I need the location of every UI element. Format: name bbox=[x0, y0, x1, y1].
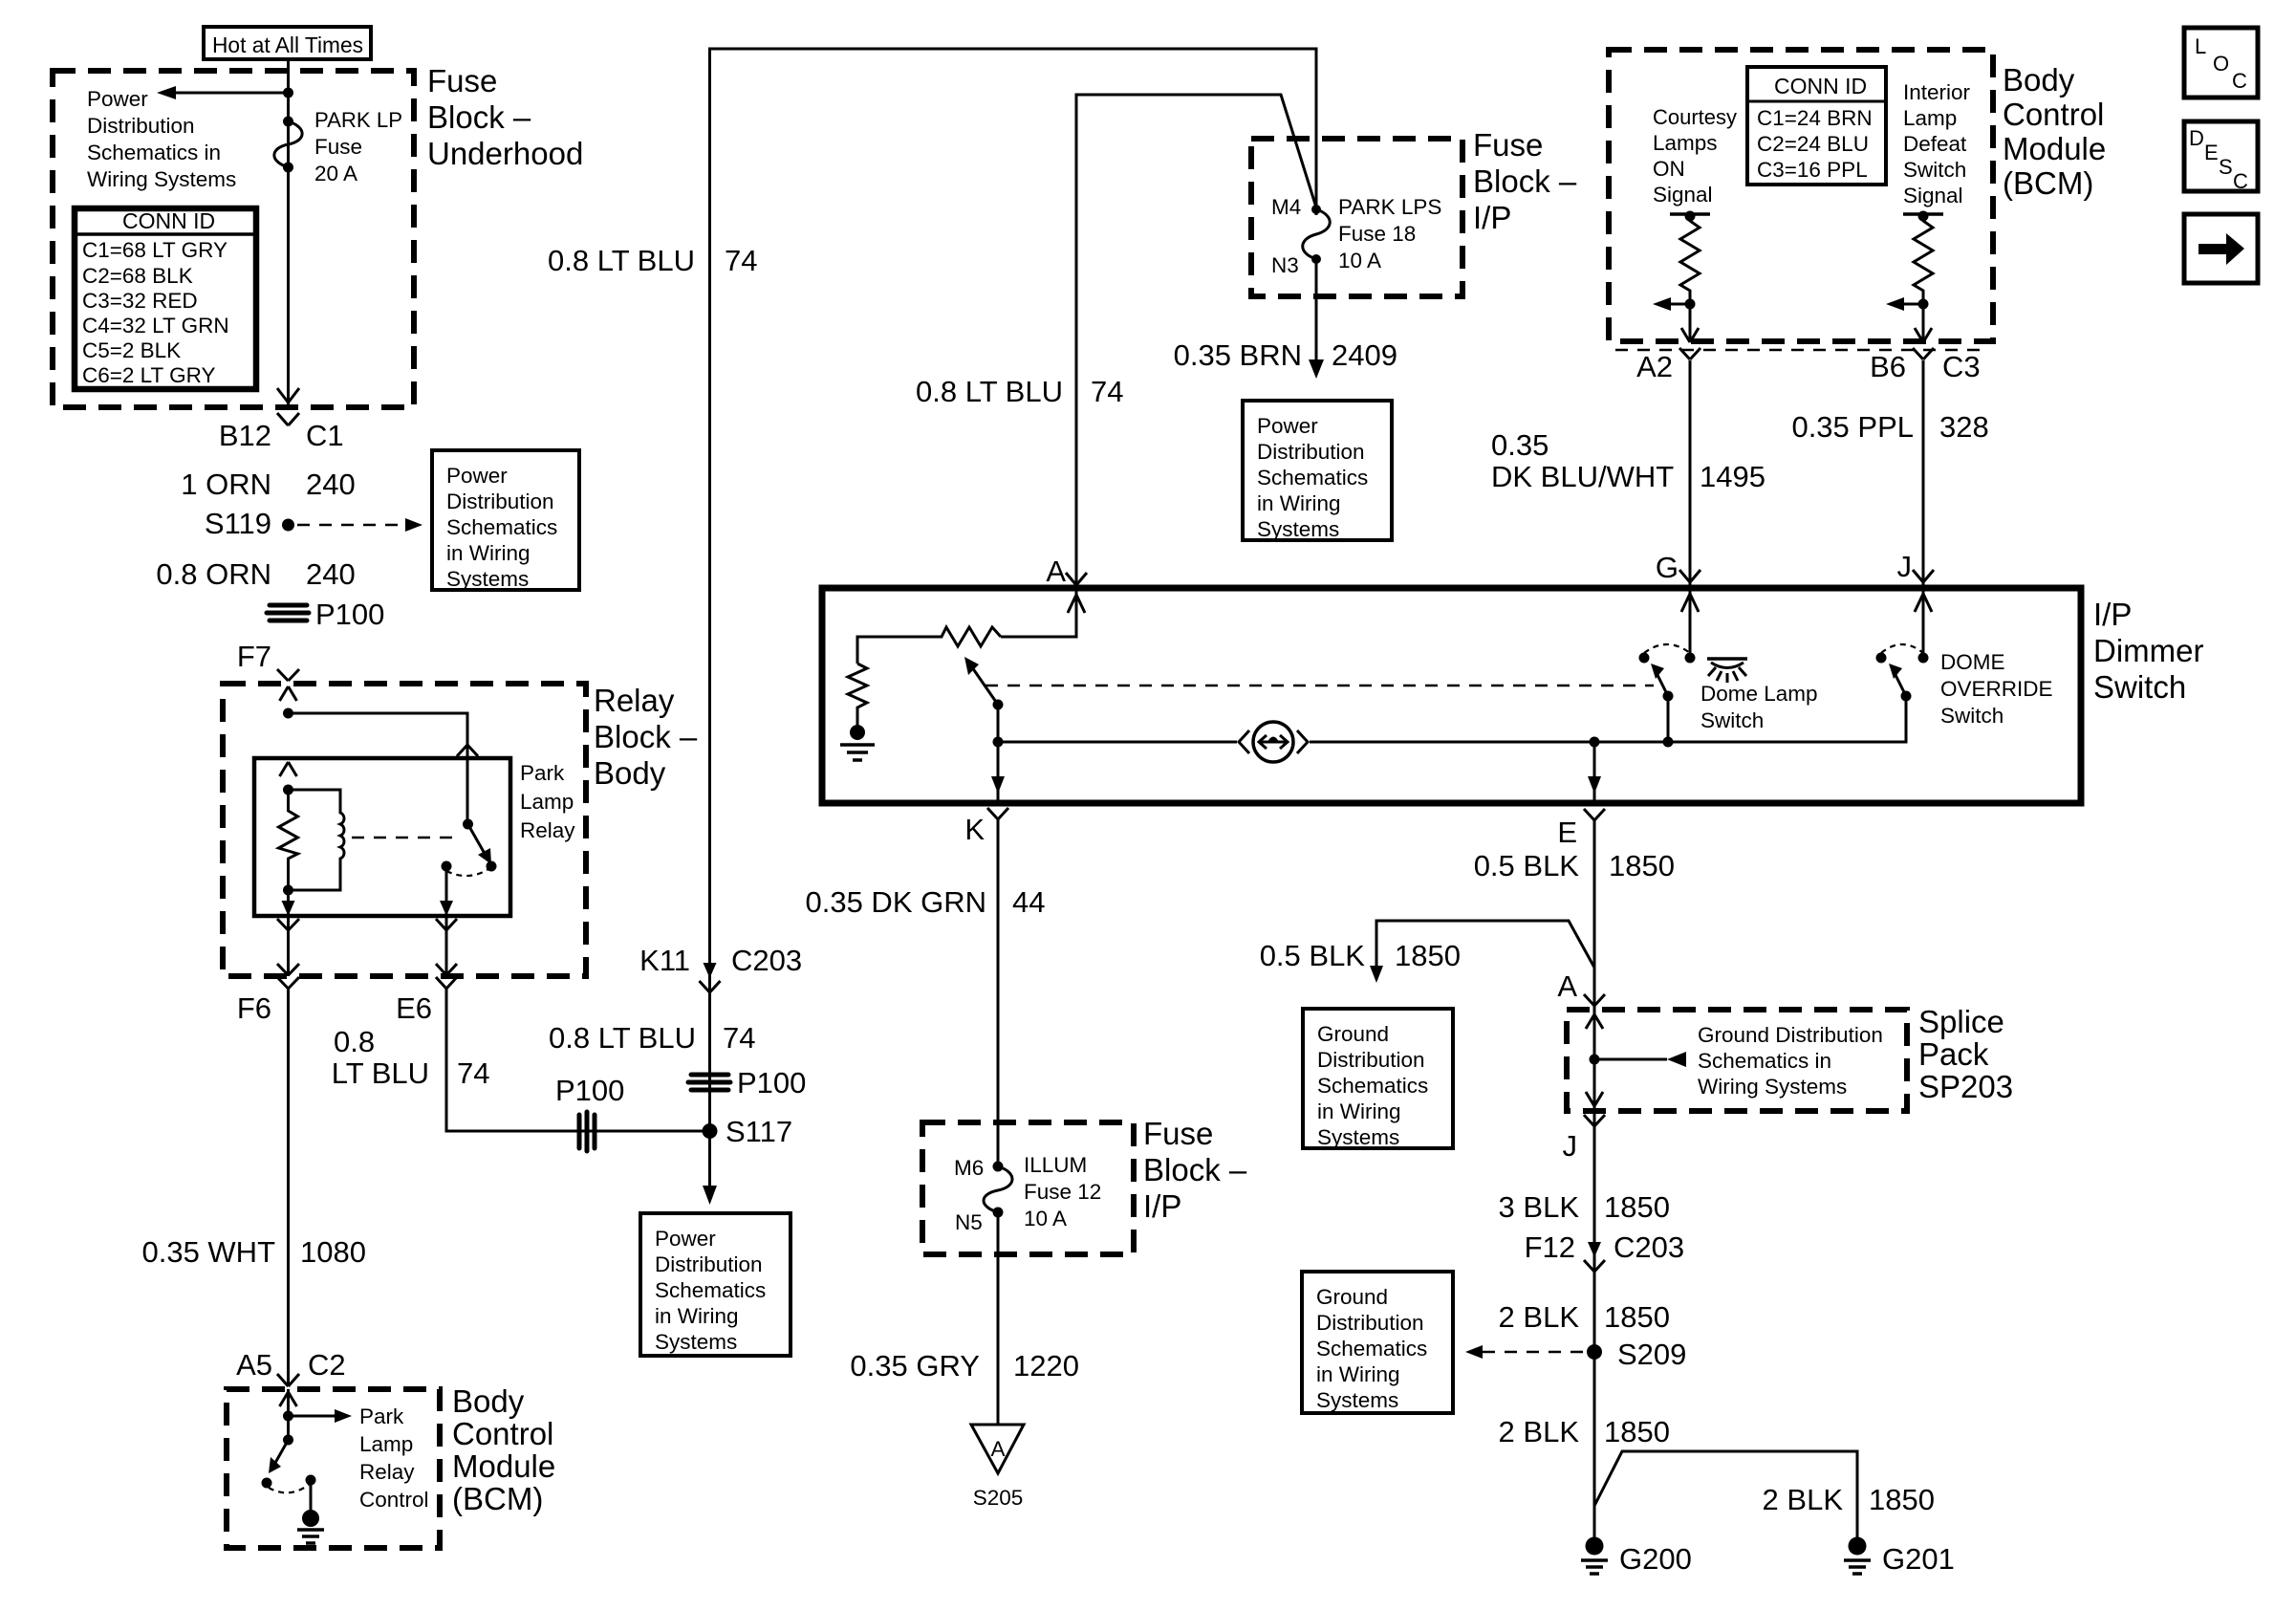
wire: dashed actuation link bbox=[352, 837, 457, 839]
svg-text:P100: P100 bbox=[555, 1074, 624, 1107]
label PARK LP Fuse 20 A bbox=[314, 108, 402, 185]
wire dashed reference to S209 bbox=[1465, 1345, 1583, 1359]
icon lamp glyph bbox=[1707, 659, 1747, 683]
pin arrow coil top bbox=[280, 762, 297, 776]
svg-text:3 BLK: 3 BLK bbox=[1499, 1190, 1580, 1224]
svg-text:LT BLU: LT BLU bbox=[332, 1056, 429, 1090]
svg-text:Power: Power bbox=[87, 87, 148, 111]
node BCM input bbox=[283, 1411, 293, 1422]
svg-text:M4: M4 bbox=[1271, 195, 1301, 219]
box ground distribution reference (S209) bbox=[1302, 1272, 1453, 1413]
ground G201 bbox=[1844, 1537, 1955, 1577]
fuse block I/P dashed box (ILLUM) bbox=[922, 1122, 1134, 1254]
svg-text:Schematics in: Schematics in bbox=[87, 141, 221, 164]
svg-text:I/P: I/P bbox=[1473, 200, 1511, 235]
connector pin F7 symbol bbox=[277, 669, 299, 681]
wire arrow S117 to power distribution reference bbox=[703, 1131, 717, 1205]
label 0.8 / LT BLU 74 (E6 drop) bbox=[332, 1025, 490, 1090]
label PARK LPS Fuse 18 10 A bbox=[1338, 195, 1441, 272]
label 0.35 GRY 1220 bbox=[850, 1349, 1079, 1382]
node coil top bbox=[283, 785, 293, 795]
switch: dimmer wiper bbox=[964, 657, 1004, 742]
icon LOC box bbox=[2184, 28, 2258, 98]
wire: arrow to Park Lamp Relay Control bbox=[289, 1409, 353, 1423]
text ground distribution reference (splice pack) bbox=[1698, 1023, 1883, 1099]
label Fuse Block - I/P (ILLUM) bbox=[1143, 1116, 1247, 1224]
svg-text:240: 240 bbox=[306, 468, 356, 501]
svg-text:Interior: Interior bbox=[1903, 80, 1971, 104]
connector pin J symbol bbox=[1913, 570, 1934, 582]
wire relay NO output down bbox=[436, 866, 457, 989]
wire through splice pack bbox=[1586, 1010, 1603, 1111]
svg-text:Ground: Ground bbox=[1317, 1022, 1389, 1046]
svg-text:0.8 LT BLU: 0.8 LT BLU bbox=[549, 1021, 696, 1055]
svg-text:Dimmer: Dimmer bbox=[2093, 633, 2203, 668]
svg-text:G200: G200 bbox=[1619, 1542, 1692, 1576]
label B6 / C3 bbox=[1870, 350, 1981, 383]
splice pack SP203 dashed box bbox=[1567, 1010, 1907, 1111]
wire left pin into relay block bbox=[280, 686, 297, 701]
svg-text:E: E bbox=[1557, 816, 1577, 849]
connector pin J symbol (below splice pack) bbox=[1584, 1115, 1605, 1126]
node: relay feed junction bbox=[283, 708, 293, 719]
label 0.8 LT BLU 74 (A drop) bbox=[916, 375, 1123, 408]
svg-text:D: D bbox=[2189, 126, 2204, 150]
wire: dashed mechanical link bbox=[986, 685, 1654, 687]
svg-text:Splice: Splice bbox=[1918, 1004, 2004, 1039]
label A5 / C2 bbox=[236, 1348, 346, 1382]
svg-text:DK BLU/WHT: DK BLU/WHT bbox=[1491, 460, 1674, 493]
label 0.5 BLK 1850 (branch) bbox=[1260, 939, 1461, 972]
wire G inside dimmer bbox=[1681, 588, 1699, 658]
icon DESC box bbox=[2184, 121, 2258, 193]
fuse block I/P dashed box (top) bbox=[1251, 139, 1462, 296]
svg-text:1 ORN: 1 ORN bbox=[181, 468, 271, 501]
svg-text:C4=32 LT GRN: C4=32 LT GRN bbox=[82, 314, 229, 337]
node splice pack tap bbox=[1590, 1055, 1600, 1065]
label 0.8 LT BLU 74 (below C203) bbox=[549, 1021, 755, 1055]
svg-text:Fuse: Fuse bbox=[1473, 127, 1543, 163]
relay block body dashed box bbox=[223, 684, 586, 976]
label Body Control Module (BCM) bbox=[452, 1383, 555, 1516]
svg-text:C5=2 BLK: C5=2 BLK bbox=[82, 338, 181, 362]
connector pin E symbol bbox=[1584, 809, 1605, 820]
node + internal arrow (courtesy) bbox=[1653, 297, 1699, 342]
svg-text:44: 44 bbox=[1012, 885, 1045, 919]
fuse ILLUM Fuse 12 10A bbox=[984, 1162, 1012, 1218]
svg-text:Ground: Ground bbox=[1316, 1285, 1388, 1309]
svg-text:Lamp: Lamp bbox=[359, 1432, 413, 1456]
svg-text:Fuse 18: Fuse 18 bbox=[1338, 222, 1416, 246]
svg-text:C203: C203 bbox=[1614, 1230, 1684, 1264]
svg-text:N5: N5 bbox=[955, 1210, 983, 1234]
svg-text:C2=24 BLU: C2=24 BLU bbox=[1757, 132, 1869, 156]
connector C2 pin A5 symbol bbox=[277, 1374, 299, 1386]
svg-text:Systems: Systems bbox=[446, 567, 529, 591]
svg-text:PARK LP: PARK LP bbox=[314, 108, 402, 132]
svg-text:Distribution: Distribution bbox=[655, 1252, 763, 1276]
switch: dome override switch bbox=[1876, 644, 1929, 702]
svg-text:A2: A2 bbox=[1636, 350, 1673, 383]
connector pin K symbol bbox=[987, 808, 1008, 819]
svg-text:S: S bbox=[2219, 155, 2233, 179]
svg-text:Distribution: Distribution bbox=[1316, 1311, 1424, 1335]
wire: connector face dashed line bbox=[1615, 349, 1986, 352]
icon arrow box bbox=[2184, 214, 2258, 283]
label 2 BLK 1850 (below S209) bbox=[1499, 1415, 1670, 1448]
svg-text:Signal: Signal bbox=[1903, 184, 1963, 207]
svg-text:in Wiring: in Wiring bbox=[446, 541, 531, 565]
svg-text:74: 74 bbox=[723, 1021, 755, 1055]
node + internal arrow (defeat) bbox=[1886, 297, 1932, 342]
svg-text:0.35 WHT: 0.35 WHT bbox=[141, 1235, 275, 1269]
label A (splice pack) bbox=[1557, 969, 1577, 1003]
label Fuse Block - I/P (top) bbox=[1473, 127, 1577, 235]
label K bbox=[964, 813, 985, 846]
svg-text:0.5 BLK: 0.5 BLK bbox=[1260, 939, 1366, 972]
label G bbox=[1656, 551, 1679, 584]
box ground distribution reference (branch) bbox=[1303, 1009, 1453, 1149]
label B12 / C1 bbox=[219, 419, 344, 452]
svg-text:0.8: 0.8 bbox=[334, 1025, 375, 1058]
svg-text:C1=68 LT GRY: C1=68 LT GRY bbox=[82, 238, 227, 262]
svg-text:Control: Control bbox=[2003, 97, 2104, 132]
svg-text:(BCM): (BCM) bbox=[452, 1481, 543, 1516]
svg-text:I/P: I/P bbox=[2093, 597, 2132, 632]
label Dome Lamp Switch bbox=[1700, 682, 1818, 732]
wire K output with arrow bbox=[991, 742, 1005, 803]
label A2 bbox=[1636, 350, 1673, 383]
svg-text:SP203: SP203 bbox=[1918, 1069, 2013, 1104]
connector pin B6/C3 symbol bbox=[1913, 348, 1934, 359]
svg-text:P100: P100 bbox=[737, 1066, 806, 1099]
ground (dimmer internal) bbox=[840, 725, 875, 760]
wire 0.35 DK GRN 44 bbox=[997, 819, 1000, 1166]
svg-text:0.8 LT BLU: 0.8 LT BLU bbox=[548, 244, 695, 277]
label box Hot at All Times bbox=[204, 27, 371, 59]
svg-text:F7: F7 bbox=[237, 640, 271, 673]
svg-text:CONN ID: CONN ID bbox=[122, 208, 215, 233]
resistor: courtesy lamps pull-up bbox=[1670, 211, 1710, 341]
svg-text:Control: Control bbox=[359, 1488, 429, 1512]
wire 0.35 BRN 2409 down-arrow bbox=[1309, 259, 1324, 379]
svg-text:1220: 1220 bbox=[1013, 1349, 1079, 1382]
pin arrow A inside dimmer bbox=[1001, 588, 1085, 637]
svg-text:10 A: 10 A bbox=[1024, 1207, 1067, 1230]
wire: dimmer bus right segment bbox=[1310, 696, 1906, 742]
svg-text:Fuse: Fuse bbox=[314, 135, 362, 159]
text Interior Lamp Defeat Switch Signal bbox=[1903, 80, 1971, 207]
svg-text:Switch: Switch bbox=[2093, 669, 2186, 705]
svg-text:Schematics in: Schematics in bbox=[1698, 1049, 1831, 1073]
svg-text:Ground Distribution: Ground Distribution bbox=[1698, 1023, 1883, 1047]
wire: fuse feed vertical B+ bbox=[287, 59, 290, 405]
wire relay coil bottom down bbox=[277, 890, 299, 989]
svg-text:M6: M6 bbox=[954, 1156, 984, 1180]
pin arrow leaving fuse block bbox=[277, 388, 299, 403]
label 2 BLK 1850 (above S209) bbox=[1499, 1300, 1670, 1334]
svg-text:(BCM): (BCM) bbox=[2003, 165, 2093, 201]
svg-text:Relay: Relay bbox=[520, 818, 575, 842]
pin chevron relay common bbox=[457, 745, 478, 756]
label F6 bbox=[237, 991, 271, 1025]
svg-text:Wiring Systems: Wiring Systems bbox=[1698, 1075, 1847, 1099]
svg-text:S119: S119 bbox=[205, 507, 271, 540]
svg-text:Distribution: Distribution bbox=[1257, 440, 1365, 464]
label M6 / N5 bbox=[954, 1156, 984, 1234]
svg-text:Fuse: Fuse bbox=[427, 63, 497, 98]
svg-text:Lamps: Lamps bbox=[1653, 131, 1718, 155]
label Splice Pack SP203 bbox=[1918, 1004, 2013, 1104]
svg-text:Hot at All Times: Hot at All Times bbox=[212, 33, 363, 57]
fuse block underhood dashed box bbox=[53, 71, 414, 407]
svg-text:Systems: Systems bbox=[1316, 1388, 1398, 1412]
svg-text:0.35: 0.35 bbox=[1491, 428, 1549, 462]
svg-text:0.5 BLK: 0.5 BLK bbox=[1474, 849, 1580, 882]
svg-text:1850: 1850 bbox=[1604, 1415, 1670, 1448]
svg-text:Lamp: Lamp bbox=[520, 790, 574, 814]
svg-text:0.35 GRY: 0.35 GRY bbox=[850, 1349, 980, 1382]
svg-text:C1=24 BRN: C1=24 BRN bbox=[1757, 106, 1873, 130]
svg-text:J: J bbox=[1563, 1129, 1578, 1163]
label 0.8 LT BLU 74 (top) bbox=[548, 244, 757, 277]
svg-text:C: C bbox=[2233, 169, 2248, 193]
svg-text:C3=32 RED: C3=32 RED bbox=[82, 289, 198, 313]
svg-text:0.8 ORN: 0.8 ORN bbox=[156, 557, 271, 591]
svg-text:1850: 1850 bbox=[1604, 1190, 1670, 1224]
grommet P100 (E6 run) bbox=[555, 1074, 624, 1151]
svg-text:Park: Park bbox=[520, 761, 565, 785]
svg-text:Control: Control bbox=[452, 1416, 553, 1451]
connector C203 pin K11 inline symbol bbox=[700, 963, 721, 992]
connector pin A symbol (splice pack) bbox=[1584, 994, 1605, 1006]
resistor: relay coil suppression bbox=[279, 790, 298, 890]
svg-text:Signal: Signal bbox=[1653, 183, 1713, 207]
svg-text:C3: C3 bbox=[1942, 350, 1981, 383]
splice S117 bbox=[703, 1115, 793, 1148]
svg-text:Lamp: Lamp bbox=[1903, 106, 1957, 130]
label 0.35 PPL 328 bbox=[1791, 410, 1988, 444]
connector pin A symbol bbox=[1066, 573, 1087, 585]
svg-text:2 BLK: 2 BLK bbox=[1499, 1300, 1580, 1334]
connector pin G symbol bbox=[1679, 570, 1700, 582]
svg-text:Schematics: Schematics bbox=[1316, 1337, 1427, 1361]
svg-text:Module: Module bbox=[2003, 131, 2106, 166]
svg-text:DOME: DOME bbox=[1940, 650, 2005, 674]
svg-text:N3: N3 bbox=[1271, 253, 1299, 277]
svg-text:Body: Body bbox=[2003, 62, 2075, 98]
svg-text:Systems: Systems bbox=[655, 1330, 737, 1354]
svg-text:ON: ON bbox=[1653, 157, 1685, 181]
box power distribution reference (fuse 18) bbox=[1243, 401, 1392, 541]
connector pin A2 symbol bbox=[1679, 348, 1700, 359]
label ILLUM Fuse 12 10 A bbox=[1024, 1153, 1101, 1230]
svg-text:C1: C1 bbox=[306, 419, 344, 452]
svg-text:0.8 LT BLU: 0.8 LT BLU bbox=[916, 375, 1063, 408]
svg-text:Body: Body bbox=[452, 1383, 525, 1419]
label 2 BLK 1850 (G201 branch) bbox=[1763, 1483, 1935, 1516]
svg-text:Wiring Systems: Wiring Systems bbox=[87, 167, 236, 191]
node bus tap K bbox=[993, 737, 1004, 748]
ground (BCM internal) bbox=[297, 1480, 324, 1543]
svg-text:1850: 1850 bbox=[1609, 849, 1675, 882]
connector C203 pin F12 inline symbol bbox=[1584, 1242, 1605, 1272]
I/P dimmer switch box bbox=[822, 588, 2081, 803]
svg-text:74: 74 bbox=[1091, 375, 1123, 408]
table CONN ID (BCM) bbox=[1747, 67, 1886, 185]
svg-text:J: J bbox=[1897, 550, 1913, 583]
svg-text:Block –: Block – bbox=[1143, 1152, 1247, 1187]
fuse PARK LPS Fuse 18 10A bbox=[1303, 205, 1331, 264]
svg-text:A: A bbox=[1046, 555, 1066, 588]
svg-text:Park: Park bbox=[359, 1404, 404, 1428]
svg-text:Schematics: Schematics bbox=[655, 1278, 766, 1302]
svg-text:Power: Power bbox=[655, 1227, 716, 1251]
label I/P Dimmer Switch bbox=[2093, 597, 2203, 705]
svg-text:1850: 1850 bbox=[1604, 1300, 1670, 1334]
svg-text:Courtesy: Courtesy bbox=[1653, 105, 1738, 129]
wire 0.35 DK BLU/WHT 1495 bbox=[1689, 360, 1692, 588]
svg-text:B6: B6 bbox=[1870, 350, 1906, 383]
svg-text:PARK LPS: PARK LPS bbox=[1338, 195, 1441, 219]
label M4 / N3 bbox=[1271, 195, 1301, 277]
label DOME OVERRIDE Switch bbox=[1940, 650, 2053, 728]
text Park Lamp Relay Control bbox=[359, 1404, 429, 1512]
pin arrow into BCM bbox=[280, 1389, 297, 1440]
wire branch to G201 bbox=[1594, 1451, 1857, 1537]
svg-text:Switch: Switch bbox=[1940, 704, 2004, 728]
svg-text:Schematics: Schematics bbox=[1257, 466, 1368, 490]
svg-text:K: K bbox=[964, 813, 985, 846]
svg-text:Schematics: Schematics bbox=[1317, 1074, 1428, 1098]
label Fuse Block - Underhood bbox=[427, 63, 583, 171]
node coil bottom bbox=[283, 885, 293, 896]
label E6 bbox=[396, 991, 432, 1025]
svg-text:G201: G201 bbox=[1882, 1542, 1955, 1576]
svg-text:E: E bbox=[2204, 141, 2219, 164]
wire: arrow to power distribution reference bbox=[157, 86, 289, 99]
resistor: dimmer lower element bbox=[848, 664, 867, 725]
wire 3 BLK 1850 bbox=[1593, 1111, 1596, 1352]
svg-text:74: 74 bbox=[725, 244, 757, 277]
label 0.5 BLK 1850 (upper) bbox=[1474, 849, 1675, 882]
svg-text:Power: Power bbox=[446, 464, 508, 488]
svg-text:I/P: I/P bbox=[1143, 1188, 1181, 1224]
connector C1 pin B12 symbol bbox=[277, 413, 299, 425]
svg-text:2 BLK: 2 BLK bbox=[1763, 1483, 1844, 1516]
label 0.35 WHT 1080 bbox=[141, 1235, 366, 1269]
svg-text:Distribution: Distribution bbox=[446, 490, 554, 513]
grommet P100 (left column) bbox=[267, 598, 384, 631]
wire circuit 74 from dimmer A to fuse 18 bbox=[1076, 95, 1316, 588]
wire circuit 74 main riser and top run bbox=[710, 49, 1317, 1131]
svg-text:C3=16 PPL: C3=16 PPL bbox=[1757, 158, 1868, 182]
wire: dashed reference from S119 bbox=[297, 518, 422, 532]
svg-text:1850: 1850 bbox=[1869, 1483, 1935, 1516]
wire branch 0.5 BLK to ground ref bbox=[1370, 921, 1594, 983]
svg-text:A: A bbox=[990, 1437, 1005, 1461]
svg-text:Fuse 12: Fuse 12 bbox=[1024, 1180, 1101, 1204]
svg-text:OVERRIDE: OVERRIDE bbox=[1940, 677, 2053, 701]
fuse F PARK LP 20A bbox=[274, 117, 302, 173]
svg-text:Body: Body bbox=[594, 755, 666, 791]
svg-text:Underhood: Underhood bbox=[427, 136, 583, 171]
resistor: dimmer rheostat bbox=[857, 627, 1001, 664]
wire 0.35 GRY 1220 bbox=[997, 1212, 1000, 1424]
svg-text:CONN ID: CONN ID bbox=[1774, 74, 1867, 98]
label F12 / C203 bbox=[1525, 1230, 1685, 1264]
node bus tap dome lamp bbox=[1663, 737, 1674, 748]
svg-text:Block –: Block – bbox=[427, 99, 531, 135]
svg-text:C2=68 BLK: C2=68 BLK bbox=[82, 264, 193, 288]
svg-text:F6: F6 bbox=[237, 991, 271, 1025]
svg-text:10 A: 10 A bbox=[1338, 249, 1381, 272]
svg-text:ILLUM: ILLUM bbox=[1024, 1153, 1087, 1177]
resistor: defeat switch pull-up bbox=[1903, 211, 1943, 341]
svg-text:C: C bbox=[2232, 69, 2247, 93]
label J (splice pack output) bbox=[1563, 1129, 1578, 1163]
svg-text:S205: S205 bbox=[973, 1486, 1024, 1510]
inductor: relay coil bbox=[289, 790, 345, 890]
svg-text:Block –: Block – bbox=[594, 719, 698, 754]
svg-text:in Wiring: in Wiring bbox=[1317, 1099, 1401, 1123]
label K11 / C203 bbox=[639, 944, 802, 977]
svg-text:in Wiring: in Wiring bbox=[1316, 1362, 1400, 1386]
text Courtesy Lamps ON Signal bbox=[1653, 105, 1738, 207]
svg-text:Dome Lamp: Dome Lamp bbox=[1700, 682, 1818, 706]
svg-text:C2: C2 bbox=[308, 1348, 346, 1382]
svg-text:in Wiring: in Wiring bbox=[1257, 491, 1341, 515]
svg-text:74: 74 bbox=[457, 1056, 489, 1090]
label 0.35 DK BLU/WHT 1495 bbox=[1491, 428, 1765, 493]
relay K1 park lamp relay box bbox=[254, 758, 510, 916]
svg-text:0.35 BRN: 0.35 BRN bbox=[1174, 338, 1302, 372]
wire E6 output to S117 bbox=[446, 989, 710, 1131]
label 0.8 ORN 240 bbox=[156, 557, 355, 591]
switch: relay contacts bbox=[442, 819, 497, 877]
label 3 BLK 1850 bbox=[1499, 1190, 1670, 1224]
label 1 ORN 240 bbox=[181, 468, 355, 501]
svg-text:A: A bbox=[1557, 969, 1577, 1003]
box power distribution reference (S119) bbox=[432, 450, 579, 591]
node: junction dot at bus tap bbox=[283, 88, 293, 98]
wire 0.35 WHT 1080 down to BCM bbox=[287, 989, 290, 1385]
grommet P100 (circuit 74 riser) bbox=[688, 1066, 806, 1099]
label F7 bbox=[237, 640, 271, 673]
table CONN ID (C1..C6) bbox=[75, 208, 256, 389]
svg-text:Fuse: Fuse bbox=[1143, 1116, 1213, 1151]
ground G200 bbox=[1581, 1537, 1692, 1577]
label Body Control Module (BCM) top bbox=[2003, 62, 2106, 201]
svg-text:E6: E6 bbox=[396, 991, 432, 1025]
BCM dashed box (park lamp relay control) bbox=[227, 1389, 440, 1548]
svg-text:Relay: Relay bbox=[359, 1460, 415, 1484]
svg-text:S117: S117 bbox=[726, 1115, 792, 1148]
label 0.35 DK GRN 44 bbox=[805, 885, 1045, 919]
svg-text:328: 328 bbox=[1939, 410, 1989, 444]
svg-text:Distribution: Distribution bbox=[1317, 1048, 1425, 1072]
svg-text:C203: C203 bbox=[731, 944, 802, 977]
BCM dashed box (top) bbox=[1609, 50, 1993, 341]
svg-text:Schematics: Schematics bbox=[446, 515, 557, 539]
svg-text:0.35 DK GRN: 0.35 DK GRN bbox=[805, 885, 986, 919]
svg-text:A5: A5 bbox=[236, 1348, 272, 1382]
svg-text:Pack: Pack bbox=[1918, 1036, 1989, 1072]
label Park Lamp Relay bbox=[520, 761, 575, 842]
node bus tap E bbox=[1590, 737, 1600, 748]
svg-text:Distribution: Distribution bbox=[87, 114, 195, 138]
svg-text:Systems: Systems bbox=[1257, 517, 1339, 541]
